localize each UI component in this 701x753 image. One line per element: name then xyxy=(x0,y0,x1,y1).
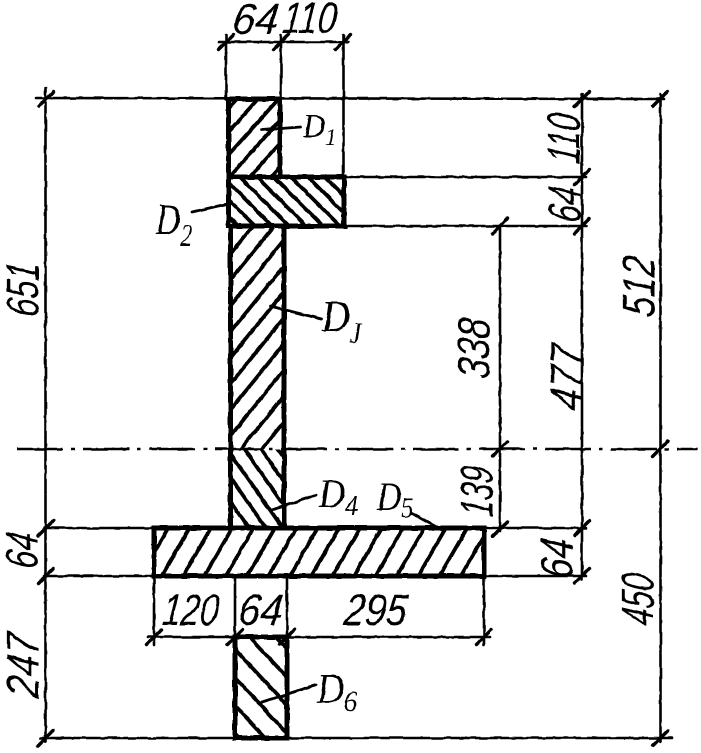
svg-text:139: 139 xyxy=(451,463,503,518)
tick bottom dim x154 xyxy=(147,630,162,645)
svg-text:64: 64 xyxy=(531,535,583,580)
svg-text:247: 247 xyxy=(0,628,49,700)
tick top dim left xyxy=(219,35,234,50)
left dimension line x=46 xyxy=(44,88,47,742)
svg-text:64: 64 xyxy=(230,0,281,44)
tick inner x500 top xyxy=(493,219,508,234)
tick outer right top xyxy=(653,92,668,107)
line D5 bottom left xyxy=(44,575,154,578)
svg-text:512: 512 xyxy=(613,253,665,318)
tick left dim bottom xyxy=(38,731,53,746)
outer right dimension line x=660 xyxy=(659,94,662,742)
flange D5 (hatched bar) xyxy=(154,528,484,576)
top outline line y=99 xyxy=(36,98,664,99)
line D5 bottom right xyxy=(484,575,586,578)
tick right dim x582 top xyxy=(575,92,590,107)
line D5 top right xyxy=(484,527,586,530)
svg-text:120: 120 xyxy=(160,586,221,635)
svg-text:477: 477 xyxy=(541,339,593,412)
svg-text:295: 295 xyxy=(341,586,410,635)
web D6 (hatched bar) xyxy=(235,637,287,738)
leader line D6 xyxy=(262,685,316,702)
tick top dim right xyxy=(336,35,351,50)
bottom extension line x=154 xyxy=(153,578,156,645)
tick left dim D5 bottom xyxy=(39,569,54,584)
flange web D1 (hatched bar) xyxy=(229,99,281,177)
tick inner x500 centerline xyxy=(493,442,508,457)
tick right dim x582 y226 xyxy=(575,219,590,234)
tick outer right bottom xyxy=(653,731,668,746)
leader line D2 xyxy=(192,204,227,212)
web D3/D4 (hatched bar) xyxy=(231,226,285,528)
leader line D3 xyxy=(270,306,321,319)
tick right dim x582 y576 xyxy=(575,569,590,584)
leader line D1 xyxy=(262,127,301,130)
tick left dim top xyxy=(39,92,54,107)
svg-text:110: 110 xyxy=(538,110,590,166)
tick top dim mid xyxy=(274,35,289,50)
top extension line x=281 xyxy=(280,35,283,99)
tick bottom dim x235 xyxy=(228,630,243,645)
top dimension line y=42 xyxy=(219,41,348,44)
leader line D4 xyxy=(272,495,316,510)
tick left dim D5 top xyxy=(39,521,54,536)
top extension line x=343 xyxy=(342,35,345,177)
right dimension line x=582 xyxy=(581,94,584,580)
bottom dimension line y=637 xyxy=(148,636,490,639)
svg-text:651: 651 xyxy=(0,259,49,318)
svg-text:64: 64 xyxy=(539,183,591,224)
tick inner x500 D5 xyxy=(493,522,508,537)
line D5 top left xyxy=(44,527,154,530)
tick right dim x582 y177 xyxy=(575,170,590,185)
tick bottom dim x287 xyxy=(280,630,295,645)
svg-text:64: 64 xyxy=(236,586,285,635)
svg-text:64: 64 xyxy=(0,529,48,570)
svg-text:338: 338 xyxy=(448,315,500,381)
leader line D5 xyxy=(411,513,442,530)
flange D2 (hatched bar) xyxy=(229,177,345,226)
tick right dim x582 y528 xyxy=(575,521,590,536)
top extension line x=226 xyxy=(225,35,228,99)
svg-text:110: 110 xyxy=(280,0,339,43)
tick outer right centerline xyxy=(653,442,668,457)
line D2 top extended right xyxy=(344,176,586,179)
centerline (dash-dot axis) xyxy=(17,448,698,451)
bottom extension line x=484 xyxy=(483,578,486,645)
web D6 upper edge lines xyxy=(234,576,237,639)
inner dimension line x=500 (338/139) xyxy=(499,226,502,531)
bottom outline line y=738 xyxy=(40,737,672,740)
svg-text:450: 450 xyxy=(612,570,664,628)
line D2 bottom extended right xyxy=(344,225,586,228)
tick bottom dim x484 xyxy=(477,630,492,645)
